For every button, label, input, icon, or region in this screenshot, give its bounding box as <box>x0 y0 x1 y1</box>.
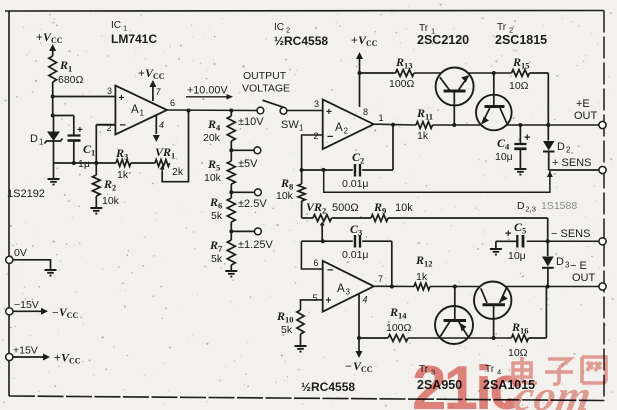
svg-text:5k: 5k <box>211 253 223 265</box>
Tr4 base lead <box>493 306 495 338</box>
svg-text:4: 4 <box>363 295 368 305</box>
ground below R7 <box>225 271 237 277</box>
node VR2 wiper / C3 line <box>321 239 325 243</box>
wire C5 to ground <box>496 241 517 249</box>
transistor Q2 Tr2 <box>476 95 512 131</box>
-E OUT terminal <box>570 260 606 290</box>
Tr1 base bar <box>444 90 466 93</box>
op-amp U2 A2 <box>323 99 374 149</box>
tap wire +-5V <box>231 147 260 154</box>
-Vcc label left <box>52 307 78 320</box>
svg-text:5k: 5k <box>211 210 223 222</box>
svg-text:7: 7 <box>378 274 383 284</box>
A2 pin 2 label <box>314 131 319 141</box>
Tr1 emitter <box>459 75 469 90</box>
-15V wire arrow <box>13 308 48 315</box>
R4 label <box>203 117 221 144</box>
svg-text:VCC: VCC <box>59 307 78 320</box>
Tr3 base bar <box>444 319 467 322</box>
resistor R5 <box>227 150 235 192</box>
svg-text:2: 2 <box>107 123 112 133</box>
svg-text:±10V: ±10V <box>238 116 264 128</box>
node D2 top <box>546 123 550 127</box>
+Vcc arrow A1 pin7 <box>149 80 156 87</box>
svg-text:3: 3 <box>346 288 351 297</box>
svg-text:IC: IC <box>111 20 121 31</box>
Tr1 collector <box>440 77 450 90</box>
svg-text:VCC: VCC <box>358 33 378 48</box>
svg-text:10Ω: 10Ω <box>509 80 529 92</box>
resistor R13 <box>396 70 415 77</box>
potentiometer VR1 <box>155 160 170 167</box>
R6 label <box>209 195 223 222</box>
A1 pin 7 label <box>156 87 162 97</box>
capacitor C5 <box>505 228 523 248</box>
svg-text:½RC4558: ½RC4558 <box>301 380 355 394</box>
-SENS terminal <box>551 228 606 245</box>
wire R9 to right rail <box>388 218 548 241</box>
node A3 output <box>390 285 394 289</box>
svg-text:R9: R9 <box>373 200 386 216</box>
svg-text:R14: R14 <box>389 305 407 321</box>
node Tr3 base on output line <box>453 285 457 289</box>
svg-text:1k: 1k <box>117 169 129 181</box>
A2 pin 8 label <box>363 107 368 117</box>
node C2/sense branch <box>322 168 326 172</box>
node D3 bottom <box>546 285 550 289</box>
switch SW1 arm <box>263 100 287 114</box>
node R1/pin3 <box>51 95 55 99</box>
A3 pin 5 label <box>313 293 318 303</box>
+Vcc arrow A2 rail <box>356 52 363 107</box>
Tr3 emitter <box>459 322 469 337</box>
A3 label <box>337 283 351 297</box>
svg-text:1S1588: 1S1588 <box>541 200 577 212</box>
svg-text:SW: SW <box>281 119 299 131</box>
Tr4 collector <box>481 288 487 303</box>
Tr2 collector <box>500 108 507 123</box>
svg-text:OUT: OUT <box>574 110 598 122</box>
transistor Q1 Tr1 <box>436 68 474 106</box>
svg-text:R7: R7 <box>209 238 223 254</box>
R9 label <box>373 200 413 216</box>
+Vcc supply label A1 input <box>36 30 63 45</box>
svg-text:1k: 1k <box>416 271 428 283</box>
-Vcc label A3 <box>345 359 373 374</box>
svg-text:10μ: 10μ <box>508 250 526 262</box>
Tr2 emitter <box>481 108 489 124</box>
svg-text:8: 8 <box>363 107 368 117</box>
plus-minus 2.5V label <box>238 198 267 210</box>
svg-text:− E: − E <box>570 260 587 272</box>
svg-text:−: − <box>120 120 126 132</box>
transistor Q3 Tr3 <box>435 306 473 344</box>
Tr1 label <box>419 23 435 36</box>
zener diode D1 <box>45 116 63 164</box>
IC2 label <box>274 22 290 35</box>
D2,3 part number 1S1588 <box>517 200 577 214</box>
half RC4558 label bottom <box>301 380 355 394</box>
svg-text:4: 4 <box>159 120 164 130</box>
svg-text:10k: 10k <box>395 202 413 214</box>
Tr3 part number 2SA950 <box>417 378 462 392</box>
node divider top <box>229 109 233 113</box>
svg-text:−: − <box>52 307 58 319</box>
A2 minus sign <box>327 131 333 143</box>
-15V terminal <box>6 299 39 315</box>
svg-text:R11: R11 <box>416 106 433 122</box>
svg-text:VCC: VCC <box>43 30 63 45</box>
capacitor C2 wire left <box>302 169 353 171</box>
D2 label <box>557 141 571 155</box>
tap wire +-1.25V <box>231 228 261 235</box>
svg-text:+: + <box>524 132 530 144</box>
svg-text:D: D <box>517 200 525 212</box>
svg-text:+10.00V: +10.00V <box>187 85 228 97</box>
svg-text:+: + <box>138 68 145 80</box>
svg-text:1k: 1k <box>417 130 429 142</box>
R15 label <box>509 55 530 92</box>
D1 label <box>30 133 44 147</box>
VR1 wiper arrow <box>160 166 165 172</box>
svg-text:C4: C4 <box>497 136 510 152</box>
A3 minus sign <box>327 265 333 277</box>
R7 label <box>209 238 223 265</box>
svg-text:−: − <box>327 131 333 143</box>
node +Vcc/R13 <box>358 71 362 75</box>
capacitor C3 <box>355 235 360 248</box>
watermark 21ic.com logo <box>412 354 606 410</box>
svg-text:3: 3 <box>314 99 319 109</box>
A1 pin 4 wire <box>155 114 157 134</box>
A3 pin 7 label <box>378 274 383 284</box>
capacitor C3 wire <box>301 240 352 242</box>
svg-text:2: 2 <box>566 146 571 155</box>
capacitor C1 <box>68 125 84 163</box>
diode D3 <box>542 241 554 286</box>
R12 label <box>415 253 433 283</box>
R14 label <box>386 305 412 334</box>
svg-text:+: + <box>119 93 125 104</box>
wire D1 to ground <box>53 163 55 179</box>
wire R1 to node <box>52 82 54 97</box>
svg-text:680Ω: 680Ω <box>58 74 84 86</box>
node pin2/R8/C2 <box>300 168 304 172</box>
wire R13 to R15 <box>414 72 512 74</box>
A2 label <box>335 122 349 136</box>
OUTPUT VOLTAGE label <box>242 70 290 95</box>
wire C4 to ground <box>519 150 521 169</box>
node D1/C1 branch <box>51 114 55 118</box>
svg-text:C1: C1 <box>83 142 95 158</box>
IC1 label <box>111 20 157 46</box>
svg-text:D: D <box>556 256 564 268</box>
A1 pin 7 wire <box>152 86 154 101</box>
R2 label <box>102 177 120 207</box>
svg-text:D: D <box>557 141 565 153</box>
wire A3 pin4 <box>358 294 360 338</box>
A1 pin 3 label <box>107 86 112 96</box>
R5 label <box>204 157 222 184</box>
svg-text:C3: C3 <box>350 222 362 238</box>
resistor R11 <box>416 122 433 129</box>
A2 pin 3 label <box>314 99 319 109</box>
resistor R4 <box>227 111 235 151</box>
svg-text:R5: R5 <box>207 157 220 173</box>
VR1 wiper to feedback wire <box>162 111 188 182</box>
VR2 label <box>306 200 359 216</box>
resistor R12 <box>414 283 430 290</box>
svg-text:R6: R6 <box>209 195 222 211</box>
svg-text:LM741C: LM741C <box>111 32 157 46</box>
resistor R1 <box>49 56 57 82</box>
resistor R6 <box>227 192 235 231</box>
wire A3 output <box>374 285 414 287</box>
capacitor C2 wire right <box>362 125 393 170</box>
A1 minus input sign <box>120 120 126 132</box>
node C1 bottom <box>72 161 76 165</box>
ground below R2 <box>90 208 102 214</box>
svg-text:100Ω: 100Ω <box>386 322 412 334</box>
R13 label <box>389 55 415 90</box>
ground 0V <box>45 270 57 276</box>
resistor R9 <box>371 215 388 222</box>
Tr4 emitter <box>500 288 508 303</box>
svg-text:6: 6 <box>314 258 319 268</box>
wire -E output line <box>430 286 599 288</box>
wire pin4 to -Vcc <box>358 338 360 351</box>
svg-text:7: 7 <box>156 87 162 97</box>
svg-text:1S2192: 1S2192 <box>7 188 45 200</box>
C4 label <box>495 136 513 163</box>
+Vcc label above A1 <box>138 66 165 81</box>
resistor R8 <box>298 170 305 218</box>
svg-text:±1.25V: ±1.25V <box>238 239 273 251</box>
0V wire to ground <box>13 260 51 270</box>
op-amp U3 A3 <box>323 261 374 312</box>
svg-text:VCC: VCC <box>61 351 81 366</box>
diode D2 <box>543 125 555 170</box>
capacitor C1 branch wire <box>53 116 74 136</box>
+10.00V label <box>186 85 233 100</box>
capacitor C4 <box>514 132 530 149</box>
svg-text:A: A <box>131 104 139 116</box>
A1 label <box>131 104 145 118</box>
ground below C4 <box>514 169 526 175</box>
svg-text:2: 2 <box>314 131 319 141</box>
R1 label <box>58 58 84 86</box>
R3 label <box>115 146 129 181</box>
R16 label <box>508 320 529 359</box>
svg-text:1: 1 <box>379 113 384 123</box>
svg-text:C5: C5 <box>514 220 526 236</box>
svg-text:VR1: VR1 <box>155 145 175 161</box>
node R2/pin2 <box>94 161 98 165</box>
node C4 top <box>518 123 522 127</box>
wire to pin 3 of A1 <box>53 96 116 98</box>
node Tr4 base <box>492 336 496 340</box>
svg-text:2SC1815: 2SC1815 <box>495 33 547 47</box>
svg-text:A: A <box>337 283 345 295</box>
wire R15 right to +E line <box>530 73 549 125</box>
Tr2 base bar <box>485 105 505 108</box>
svg-text:+: + <box>36 32 43 44</box>
wire R14 to R16 <box>408 337 512 339</box>
svg-text:3: 3 <box>107 86 112 96</box>
ground below C5 <box>490 249 502 255</box>
A3 pin 4 label <box>363 295 368 305</box>
svg-text:R16: R16 <box>511 320 529 336</box>
negative rail arrow A3 pin4 <box>356 351 363 358</box>
VR2 wiper <box>320 222 325 242</box>
Tr2 label <box>497 22 513 35</box>
svg-text:D: D <box>30 133 38 145</box>
svg-text:R2: R2 <box>103 177 116 193</box>
potentiometer VR2 <box>313 215 332 222</box>
resistor R10 <box>297 310 304 346</box>
svg-text:1μ: 1μ <box>78 158 90 170</box>
Tr2 base lead <box>493 73 495 106</box>
+Vcc label A2 <box>351 33 378 48</box>
resistor R2 <box>93 163 101 208</box>
capacitor C4 wire <box>519 125 521 143</box>
svg-text:VCC: VCC <box>353 359 373 374</box>
svg-text:20k: 20k <box>203 132 221 144</box>
svg-text:+: + <box>326 296 332 307</box>
svg-text:100Ω: 100Ω <box>389 78 415 90</box>
node Tr1 base on output line <box>452 123 456 127</box>
wire A1 output <box>167 109 257 112</box>
svg-text:10μ: 10μ <box>495 151 513 163</box>
0V terminal <box>6 247 27 263</box>
svg-text:½RC4558: ½RC4558 <box>274 34 328 48</box>
svg-text:1: 1 <box>39 138 44 147</box>
svg-text:+: + <box>505 228 511 240</box>
svg-text:− SENS: − SENS <box>551 228 590 240</box>
op-amp U1 A1 <box>115 86 167 135</box>
svg-text:R12: R12 <box>415 253 433 269</box>
wire node to D1 <box>52 97 54 116</box>
C3 label <box>342 222 369 261</box>
node A2 output/C2 <box>391 123 395 127</box>
svg-text:+E: +E <box>576 98 590 110</box>
wire pin2 vertical <box>96 125 115 163</box>
A1 pin 4 label <box>159 120 164 130</box>
C2 label <box>342 150 369 190</box>
svg-text:R4: R4 <box>207 117 221 133</box>
wire R14 line <box>359 337 388 339</box>
resistor R3 <box>96 160 155 167</box>
Tr1 base lead <box>453 92 455 125</box>
Tr3 label bottom <box>419 364 435 377</box>
Tr4 base bar <box>483 303 506 306</box>
resistor R15 <box>512 70 530 77</box>
C5 label <box>508 220 526 262</box>
wire A3 pin6 <box>301 241 322 269</box>
plus-minus 5V label <box>238 158 258 170</box>
svg-text:+ SENS: + SENS <box>552 157 591 169</box>
wire VR2 to R9 <box>332 217 372 219</box>
Tr1 part number 2SC2120 <box>417 33 469 47</box>
svg-text:±2.5V: ±2.5V <box>238 198 267 210</box>
SW1 label <box>281 119 304 133</box>
IC2 part number <box>274 34 328 48</box>
wire +Vcc rail to R13 <box>360 72 396 74</box>
+15V terminal <box>6 345 38 361</box>
svg-text:R10: R10 <box>276 309 294 325</box>
Tr3 base lead <box>454 287 456 321</box>
+Vcc arrow <box>49 44 56 56</box>
svg-text:2k: 2k <box>172 166 184 178</box>
svg-text:5: 5 <box>313 293 318 303</box>
node R6/R7 junction <box>229 229 233 233</box>
+SENS terminal <box>549 157 606 174</box>
node pin4/R14 <box>357 336 361 340</box>
svg-text:R3: R3 <box>115 146 128 162</box>
A1 pin 2 label <box>107 123 112 133</box>
A3 plus sign <box>326 296 332 307</box>
C1 label <box>78 142 95 170</box>
svg-text:VCC: VCC <box>145 66 165 81</box>
resistor R7 <box>227 231 235 271</box>
svg-text:R1: R1 <box>59 58 72 74</box>
R10 label <box>276 309 294 336</box>
A1 plus input sign <box>119 93 125 104</box>
+E OUT terminal <box>574 98 606 129</box>
plus-minus 10V label <box>238 116 264 128</box>
wire sense feedback to +SENS <box>324 170 553 192</box>
wire -SENS line <box>527 240 599 242</box>
Tr2 part number 2SC1815 <box>495 33 547 47</box>
svg-text:±5V: ±5V <box>238 158 258 170</box>
wire R16 to -E line <box>529 287 547 339</box>
svg-text:Tr: Tr <box>497 22 507 33</box>
svg-text:+: + <box>326 107 332 118</box>
svg-text:0.01μ: 0.01μ <box>342 249 369 261</box>
svg-text:R13: R13 <box>395 55 413 71</box>
svg-text:+: + <box>77 125 83 136</box>
svg-text:+15V: +15V <box>13 345 38 357</box>
wire VR2 R9 line <box>302 217 313 219</box>
R8 label <box>276 176 294 202</box>
A1 pin 6 label <box>170 98 175 108</box>
svg-text:A: A <box>335 122 343 134</box>
svg-text:500Ω: 500Ω <box>332 202 359 214</box>
R11 label <box>416 106 433 142</box>
tap wire +-2.5V <box>231 189 261 196</box>
node -SENS rail top <box>546 239 550 243</box>
svg-text:−: − <box>345 361 352 373</box>
negative rail arrow A1 pin4 <box>153 135 160 142</box>
Tr4 label bottom <box>485 364 501 377</box>
svg-text:OUT: OUT <box>572 272 596 284</box>
Tr4 part number 2SA1015 <box>483 378 535 392</box>
svg-text:2,3: 2,3 <box>526 205 536 214</box>
svg-text:+: + <box>54 353 61 365</box>
resistor R16 <box>512 335 529 342</box>
D3 label <box>556 256 570 270</box>
node Tr2 base junction <box>492 71 496 75</box>
A3 pin 6 label <box>314 258 319 268</box>
node feedback/output A1 <box>187 109 191 113</box>
wire A2 pin2 to C2 line <box>302 135 323 170</box>
ground below D1 <box>48 179 60 185</box>
A2 pin 1 label <box>379 113 384 123</box>
VR1 label <box>155 145 184 178</box>
svg-text:+: + <box>351 35 358 47</box>
+15V wire arrow <box>13 354 50 361</box>
svg-text:0.01μ: 0.01μ <box>342 178 369 190</box>
